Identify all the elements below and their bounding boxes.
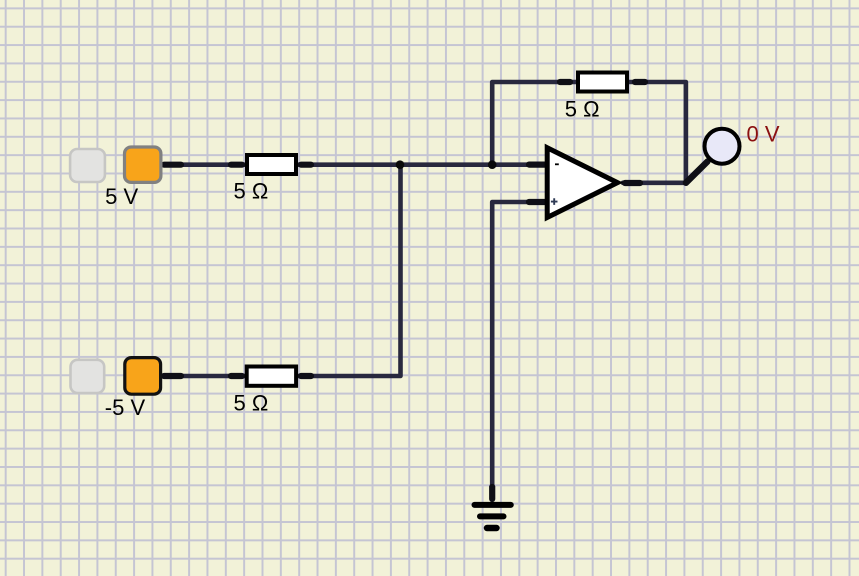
svg-text:5 Ω: 5 Ω	[234, 179, 269, 204]
svg-text:0 V: 0 V	[747, 121, 780, 146]
svg-text:5 Ω: 5 Ω	[234, 391, 269, 416]
svg-text:5 V: 5 V	[105, 184, 138, 209]
svg-text:5 Ω: 5 Ω	[565, 97, 600, 122]
svg-text:-5 V: -5 V	[105, 395, 146, 420]
